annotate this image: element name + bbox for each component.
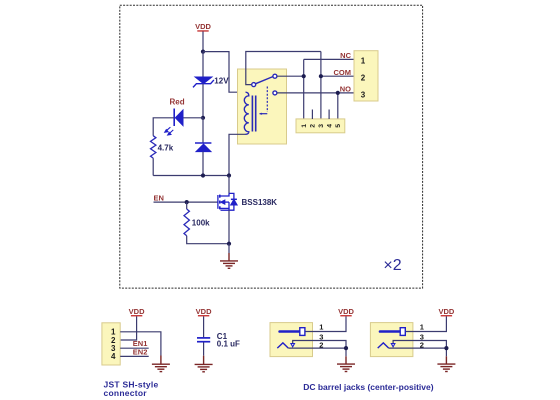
jack2 center pin: [380, 328, 405, 336]
svg-text:3: 3: [361, 90, 366, 99]
power flag VDD (C1): [196, 307, 212, 317]
wire 100k to source rail: [187, 236, 229, 244]
barrel jack 2 box: [370, 323, 413, 357]
jack1 center pin: [280, 328, 305, 336]
svg-text:4.7k: 4.7k: [158, 144, 174, 153]
junction diode / rail: [201, 173, 205, 177]
junction jack2 ground: [444, 346, 448, 350]
wire to ground: [228, 244, 230, 253]
wire drain: [228, 176, 230, 194]
junction rail / drain: [227, 173, 231, 177]
relay NO contact: [273, 91, 277, 95]
svg-text:VDD: VDD: [129, 307, 145, 316]
svg-text:2: 2: [361, 74, 366, 83]
wire node to coil top: [203, 52, 246, 93]
power flag VDD (JST): [129, 307, 145, 317]
wire pole route to COM: [246, 52, 321, 85]
wire diode to bottom rail: [202, 152, 204, 176]
wire jack2 pin3: [393, 341, 446, 349]
svg-text:4: 4: [111, 352, 116, 361]
wire cap to ground: [203, 342, 205, 355]
svg-text:VDD: VDD: [338, 307, 354, 316]
zener D1: [193, 77, 214, 88]
relay pole contact: [252, 83, 256, 87]
relay armature mark: [260, 113, 268, 115]
relay armature blade: [256, 77, 273, 84]
wire VDD to cap: [203, 316, 205, 337]
svg-text:100k: 100k: [192, 219, 210, 228]
wire jack1 pin2 to ground: [288, 348, 346, 356]
wire VDD to pin2: [120, 316, 136, 340]
svg-text:1: 1: [420, 323, 424, 332]
svg-text:EN2: EN2: [133, 348, 148, 357]
wire NO contact to header pin3: [277, 92, 354, 94]
node junction at VDD rail: [201, 50, 205, 54]
wire VDD to jack2 pin1: [405, 316, 446, 331]
wire LED to resistor: [153, 118, 174, 136]
svg-text:COM: COM: [334, 68, 352, 77]
wire NC net vertical: [303, 59, 305, 119]
svg-text:VDD: VDD: [196, 307, 212, 316]
resistor R2 100k: [184, 209, 189, 236]
jack1 switch arrow: [291, 344, 295, 347]
ground (main): [220, 253, 238, 268]
dashed module boundary box: [120, 5, 423, 288]
svg-text:1: 1: [319, 323, 323, 332]
LED emission arrows: [165, 127, 174, 135]
wire JST pin1 to ground: [120, 332, 161, 356]
relay footprint pin2 stub: [311, 110, 313, 120]
wire LED node to LED: [183, 117, 203, 119]
LED D3: [165, 109, 183, 136]
junction LED node: [201, 116, 205, 120]
header J-OUT box: [354, 51, 378, 101]
wire coil bottom to drain rail: [229, 134, 246, 175]
relay K1 body box: [238, 69, 287, 144]
ground (JST): [152, 356, 170, 372]
wire LED node to flyback diode: [202, 118, 204, 143]
power flag VDD (main): [195, 22, 211, 32]
wire COM vertical to 5-pin pin3: [320, 52, 322, 120]
wire NC net to header pin1: [304, 58, 354, 60]
svg-text:connector: connector: [104, 388, 148, 398]
power flag VDD (jack1): [338, 307, 354, 317]
svg-text:Red: Red: [170, 98, 185, 107]
svg-text:4: 4: [326, 124, 333, 128]
svg-text:DC barrel jacks (center-positi: DC barrel jacks (center-positive): [303, 382, 434, 392]
relay actuation dashed link: [266, 87, 268, 113]
svg-text:0.1 uF: 0.1 uF: [217, 340, 240, 349]
junction COM: [319, 74, 323, 78]
wire JST pin3 EN1: [120, 347, 149, 349]
relay footprint 5-pin box: [296, 119, 345, 133]
wire NO to 5-pin pin5: [337, 93, 339, 119]
wire VDD to node: [202, 32, 204, 52]
wire jack1 pin3: [293, 341, 346, 349]
power flag VDD (jack2): [438, 307, 454, 317]
JST connector box: [102, 323, 120, 365]
wire NC contact to junction: [277, 75, 304, 77]
jack2 switch arrow: [391, 344, 395, 347]
junction NC: [302, 74, 306, 78]
junction jack1 ground: [344, 346, 348, 350]
wire source down: [228, 210, 230, 244]
svg-text:1: 1: [301, 124, 308, 128]
ground (jack1): [337, 356, 355, 371]
junction NO: [336, 91, 340, 95]
svg-text:VDD: VDD: [195, 22, 211, 31]
wire VDD to jack1 pin1: [305, 316, 346, 331]
svg-text:NO: NO: [340, 85, 351, 94]
bottom rail wire: [153, 175, 229, 177]
wire resistor to bottom rail: [152, 158, 154, 175]
svg-text:NC: NC: [340, 51, 351, 60]
junction source / 100k: [227, 242, 231, 246]
barrel jack 1 box: [270, 323, 313, 357]
relay core bars: [251, 96, 253, 132]
svg-text:EN: EN: [154, 193, 164, 202]
wire zener to LED node: [202, 84, 204, 118]
junction EN / 100k: [185, 200, 189, 204]
wire COM to header pin2: [321, 75, 354, 77]
svg-text:BSS138K: BSS138K: [242, 198, 278, 207]
jack2 sleeve: [378, 343, 389, 348]
transistor Q1 BSS138K: [218, 193, 237, 210]
wire node to zener: [202, 52, 204, 77]
svg-text:×2: ×2: [383, 257, 401, 274]
wire jack2 pin2 to ground: [389, 348, 447, 356]
ground (jack2): [437, 356, 455, 371]
jack1 sleeve: [277, 343, 288, 348]
wire JST pin4 EN2: [120, 355, 149, 357]
capacitor C1: [197, 338, 210, 342]
svg-text:2: 2: [310, 124, 317, 128]
wire EN to gate: [154, 201, 218, 203]
flyback diode D2: [195, 143, 211, 152]
ground (C1): [195, 356, 213, 372]
svg-text:5: 5: [335, 124, 342, 128]
svg-text:1: 1: [361, 57, 366, 66]
svg-text:VDD: VDD: [438, 307, 454, 316]
svg-text:12V: 12V: [214, 76, 229, 85]
svg-text:3: 3: [318, 124, 325, 128]
relay NC contact: [273, 74, 277, 78]
resistor R1 4.7k: [151, 136, 156, 158]
wire junction to 100k: [186, 202, 188, 209]
relay footprint pin4 stub: [328, 110, 330, 120]
relay coil: [244, 92, 249, 134]
